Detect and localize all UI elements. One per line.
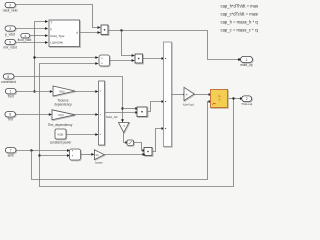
product P1 <box>101 25 109 36</box>
product P3 <box>137 107 148 118</box>
svg-text:cap_h = mass_h * cp: cap_h = mass_h * cp <box>221 20 259 25</box>
wire P4 out up to mux in3 <box>152 129 162 152</box>
product P4 <box>144 148 153 157</box>
svg-text:-?: -? <box>122 124 125 128</box>
wire T branch to min block <box>35 57 96 59</box>
inport 2 rated_veld <box>3 2 18 12</box>
saturation block SAT <box>127 140 134 146</box>
wire inport3 to block in2 <box>15 28 45 30</box>
svg-text:mix_vdot: mix_vdot <box>3 45 17 49</box>
wire Text to gain G1 <box>16 91 50 93</box>
annotation equations <box>221 4 266 33</box>
svg-text:1/t: 1/t <box>95 153 98 157</box>
sum S2 <box>70 149 82 161</box>
svg-text:LQ(H2)4k: LQ(H2)4k <box>50 40 63 44</box>
svg-text:constant power: constant power <box>50 140 73 144</box>
svg-text:S: S <box>218 98 220 102</box>
outport 1 mdot_up <box>240 56 253 66</box>
svg-text:tauss: tauss <box>95 161 103 165</box>
svg-text:2: 2 <box>9 3 11 7</box>
wire inport4 to block in3 <box>30 35 46 37</box>
wire Thrt to gain G2 <box>16 114 50 116</box>
svg-text:amb: amb <box>8 153 14 157</box>
node command branch to P3 <box>121 107 123 109</box>
gain G4 1/taus <box>94 150 105 165</box>
node amb branch down <box>30 149 32 151</box>
svg-text:Text: Text <box>8 94 14 98</box>
svg-text:p: p <box>50 27 52 31</box>
node P1out branch down <box>120 29 122 31</box>
gain G1 Tsource dependency <box>53 86 76 106</box>
svg-text:Thrt: Thrt <box>7 118 13 122</box>
min block B3 <box>99 55 110 67</box>
svg-text:6: 6 <box>9 113 11 117</box>
wire G2 out to sum S1 <box>75 114 96 116</box>
s-function block SF1 <box>211 90 229 109</box>
outport 2 ThxLout <box>241 96 252 106</box>
wire U1 out to product P1 <box>80 32 98 34</box>
inport 1 Text <box>5 89 16 99</box>
gain G5 k(m*cp) <box>183 87 195 106</box>
inport 6 Thrt <box>5 112 16 122</box>
wire G3 out to sat block <box>124 133 126 143</box>
wire C1 out to sum S1 <box>66 134 96 136</box>
svg-text:mdot_up: mdot_up <box>240 63 253 67</box>
svg-text:3: 3 <box>9 27 11 31</box>
svg-text:1: 1 <box>246 58 248 62</box>
wire G4 out to product P4 <box>104 153 143 155</box>
product P2 <box>135 54 144 64</box>
svg-text:Thrt_dependency: Thrt_dependency <box>48 123 73 127</box>
svg-text:K(h): K(h) <box>60 89 65 93</box>
wire command down x=121.8 <box>14 77 123 120</box>
svg-text:1: 1 <box>10 89 12 93</box>
fluid property block U1 <box>49 20 81 48</box>
svg-text:k(m*cp): k(m*cp) <box>183 102 194 106</box>
wire SAT out to product P4 <box>134 143 143 151</box>
svg-text:7: 7 <box>10 148 12 152</box>
svg-text:cap_h*dTh/dt = mass_h: cap_h*dTh/dt = mass_h <box>221 4 259 9</box>
svg-text:K(h): K(h) <box>59 113 64 117</box>
wire M1 out to gain G5 <box>172 94 184 96</box>
wire P1 out to outport 1 <box>108 31 239 60</box>
wire P3 out up to mux in2 <box>147 102 162 112</box>
svg-text:cap_c = mass_c * cp: cap_c = mass_c * cp <box>221 28 259 33</box>
svg-text:8: 8 <box>7 75 9 79</box>
wire inport2 to product P1 <box>15 5 97 28</box>
wire P2 out to mux <box>143 58 162 60</box>
inport 5 mix_vdot <box>3 39 17 49</box>
gain G3 down triangle <box>119 123 130 134</box>
svg-text:Fluid_Type: Fluid_Type <box>50 34 65 38</box>
svg-text:ratul_veld: ratul_veld <box>3 8 18 12</box>
wire inport5 to block in4 <box>15 42 45 44</box>
gain G2 Thrt dependency <box>48 110 76 127</box>
node Thx branch to sum S2 <box>38 154 40 156</box>
wire B3 out to product P2 <box>110 60 132 62</box>
svg-text:SAA_hd: SAA_hd <box>106 115 118 119</box>
node T riser x=34.5 <box>35 22 46 92</box>
wire S1 out SAA_hd to P3 <box>105 112 136 114</box>
svg-text:cap_c*dTc/dt = mass_c: cap_c*dTc/dt = mass_c <box>221 12 259 17</box>
svg-text:command: command <box>1 80 16 84</box>
svg-text:ThxLout: ThxLout <box>241 102 252 106</box>
svg-text:p_vdot: p_vdot <box>5 32 15 36</box>
constant power block C1 <box>50 129 73 144</box>
svg-text:K(9): K(9) <box>58 132 64 136</box>
wire G1 out to sum S1 <box>75 91 96 93</box>
mux M1 tall <box>164 42 173 147</box>
svg-text:5: 5 <box>9 40 11 44</box>
sum S1 tall <box>99 81 106 146</box>
svg-text:fluid_vdot: fluid_vdot <box>18 38 32 42</box>
wire Thx feedback <box>40 64 234 187</box>
inport 7 amb <box>5 148 16 158</box>
wire amb to sum S2 <box>16 150 67 152</box>
svg-text:dependency: dependency <box>54 102 72 106</box>
inport 3 p_vdot <box>5 26 16 36</box>
svg-text:2: 2 <box>246 97 248 101</box>
wire G5 out to sfun <box>194 94 209 96</box>
wire SF1 out to outport 2 <box>228 98 241 100</box>
wire S2 out to gain G4 <box>81 153 92 155</box>
inport 8 command <box>1 74 16 84</box>
svg-text:T: T <box>50 21 52 25</box>
inport 4 fluid_vdot <box>18 33 32 42</box>
